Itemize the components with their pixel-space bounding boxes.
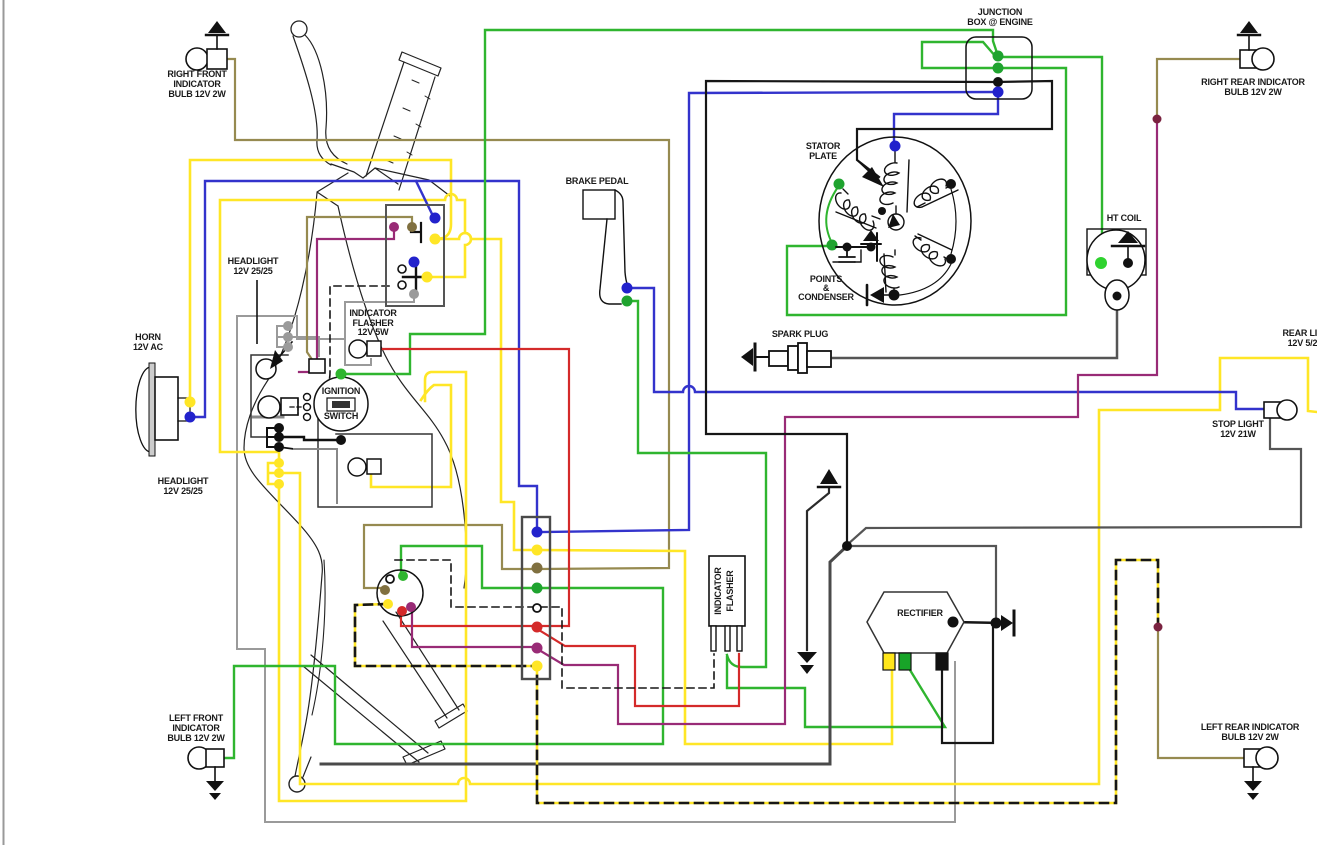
headlight grey bar (253, 416, 283, 419)
wire: yellow switch contact 1 to strip (437, 233, 537, 550)
headlight outer box (251, 355, 288, 437)
wire: yellow bottom pin loop to headlight bulb (279, 372, 466, 801)
wire: grey speedo connector lead (288, 337, 319, 356)
wire: green indicator flasher to rectifier (727, 657, 945, 727)
scooter body outline: fork pedal slab (435, 704, 467, 728)
wire: blue branch to switch contact (416, 181, 433, 216)
bulb stop light (1264, 402, 1281, 418)
maroon junction dot right rear (1153, 115, 1162, 124)
bulb left front indicator (188, 747, 210, 769)
stator top coil (880, 163, 899, 205)
scooter body outline: stub (303, 757, 311, 777)
svg-text:SWITCH: SWITCH (324, 411, 358, 421)
leader line headlight (256, 280, 258, 344)
wire: yellow headlight connector bracket (268, 463, 279, 484)
rectifier output arrow (1001, 615, 1013, 631)
wire: yellow strip to rectifier (537, 550, 892, 744)
indicator flasher unit box (709, 556, 745, 626)
wire: grey from handlebar switch to headlight box (237, 294, 414, 339)
switch contact T bar 2 (403, 261, 431, 293)
svg-text:RIGHT REAR INDICATOR: RIGHT REAR INDICATOR (1201, 77, 1305, 87)
wire: grey inside headlamp box (294, 449, 337, 503)
scooter body outline: handlebar collar (317, 164, 450, 206)
wire: red strip to indicator flasher unit (539, 630, 739, 706)
junction box at engine (966, 37, 1032, 99)
wire: blue brake pedal to stop light (629, 288, 1264, 409)
stator bottom coil (880, 256, 899, 288)
switch terminal yellow 1 (430, 234, 441, 245)
scooter body outline: inner left curve (312, 560, 325, 715)
spark plug (741, 348, 753, 366)
svg-text:12V 5W: 12V 5W (358, 327, 390, 337)
stator bottom internal arc (900, 264, 951, 295)
HT coil (1087, 229, 1146, 275)
ground left rear indicator (1252, 767, 1254, 781)
ground arrow up near rectifier (820, 469, 838, 484)
wire: yellow headlight bulb to pilot bulb (371, 385, 451, 487)
wire: olive right rear indicator pigtail (1157, 59, 1240, 117)
svg-text:HORN: HORN (135, 332, 161, 342)
stator right lower coil (913, 238, 945, 266)
wire: purple round connector to strip (412, 609, 534, 647)
indicator flasher bulb (349, 340, 367, 358)
yellow connector dots (274, 458, 284, 468)
wire: purple strip to right rear indicator (539, 122, 1157, 724)
junction dot at stator feed (842, 541, 852, 551)
round connector (377, 570, 423, 616)
speedo bulb and arrow (256, 359, 276, 379)
svg-text:IGNITION: IGNITION (322, 386, 360, 396)
wire: purple switch to speedo bulb (299, 229, 394, 372)
svg-text:BOX @ ENGINE: BOX @ ENGINE (967, 17, 1033, 27)
stator left coil (836, 193, 874, 230)
brake pedal (583, 190, 615, 219)
scooter body outline: throttle tube end cap (399, 52, 441, 76)
svg-text:12V 5/21W: 12V 5/21W (1288, 338, 1317, 348)
svg-text:FLASHER: FLASHER (725, 570, 735, 612)
headlight earth terminal dots (267, 428, 279, 447)
switch terminal grey (409, 289, 419, 299)
switch terminal yellow 2 (422, 272, 433, 283)
wire: grey ground loop (headlight to rectifier case) (237, 317, 955, 822)
stator frame arrow (862, 167, 884, 187)
stator right internal arc (951, 189, 956, 254)
stator right upper coil (914, 179, 946, 207)
wire: black junction box to stator frame left (706, 81, 996, 546)
wire: green junction box internal link (922, 42, 996, 68)
wire: green brake pedal to indicator flasher (629, 301, 766, 667)
svg-text:HT COIL: HT COIL (1107, 213, 1142, 223)
wire: grey branch to indicator flasher bulb (345, 339, 371, 365)
scooter body outline: throttle tube sides (366, 62, 435, 190)
bulb right front indicator (186, 48, 208, 70)
svg-text:BULB 12V 2W: BULB 12V 2W (167, 733, 225, 743)
wire: olive left rear indicator pigtail (1158, 629, 1244, 758)
svg-text:SPARK PLUG: SPARK PLUG (772, 329, 829, 339)
wire: green ignition switch to junction box (341, 30, 997, 376)
svg-text:12V 25/25: 12V 25/25 (163, 486, 202, 496)
svg-text:INDICATOR: INDICATOR (172, 723, 220, 733)
wire: grey junction to rectifier output node (848, 546, 996, 620)
scooter body outline: fork rod (383, 612, 459, 718)
svg-text:HEADLIGHT: HEADLIGHT (228, 256, 279, 266)
stator plate circle (819, 137, 971, 305)
wire: olive handlebar switch to speedo bulb (307, 217, 412, 358)
wire: blue junction box to strip (541, 92, 997, 532)
scooter body outline: tube hatch ticks (386, 80, 430, 163)
scooter body outline: brake lever ball (291, 21, 307, 37)
ground arrow down near rectifier (797, 652, 817, 663)
wire: grey junction to stop light ground (847, 419, 1301, 545)
wire: yellow horn to switch contact 1 (190, 160, 451, 398)
page border line (3, 0, 5, 845)
switch terminal circles (398, 265, 406, 273)
stator terminal dots (890, 141, 901, 152)
svg-text:RECTIFIER: RECTIFIER (897, 608, 943, 618)
rectifier (867, 592, 964, 653)
headlight bulb terminal circles (304, 394, 311, 401)
wire: olive right front indicator to strip (227, 59, 669, 569)
svg-text:12V 21W: 12V 21W (1220, 429, 1256, 439)
scooter body outline: kickstart pedal slab (403, 741, 445, 765)
pilot bulb (348, 458, 366, 476)
scooter body outline: right body curve (338, 206, 466, 588)
wire: green round connector to left front indicator (222, 546, 663, 758)
svg-text:12V 25/25: 12V 25/25 (233, 266, 272, 276)
wire: black rectifier output (953, 622, 1002, 623)
wire: green stator internal arc (826, 187, 838, 243)
switch contact T bar 1 (411, 223, 421, 242)
svg-text:INDICATOR: INDICATOR (713, 567, 723, 615)
bulb left rear indicator (1244, 749, 1262, 767)
switch terminal blue 2 (409, 257, 420, 268)
wire: green junction box to stator points (787, 68, 1066, 315)
scooter body outline: brake lever blade (293, 35, 347, 165)
svg-text:STOP LIGHT: STOP LIGHT (1212, 419, 1264, 429)
switch terminal olive (407, 222, 417, 232)
bulb right rear indicator (1240, 50, 1258, 68)
wire: yellow headlight connector to switch contact 2 (220, 194, 471, 462)
svg-text:JUNCTION: JUNCTION (978, 7, 1022, 17)
svg-text:INDICATOR: INDICATOR (173, 79, 221, 89)
svg-text:12V AC: 12V AC (133, 342, 164, 352)
maroon junction dot left rear (1154, 623, 1163, 632)
svg-text:RIGHT FRONT: RIGHT FRONT (167, 69, 227, 79)
horn (136, 367, 151, 452)
svg-text:BULB 12V 2W: BULB 12V 2W (1224, 87, 1282, 97)
ignition key slot (327, 398, 355, 411)
svg-text:LEFT FRONT: LEFT FRONT (169, 713, 224, 723)
headlamp unit box (318, 419, 432, 507)
speedo grey connector dots (277, 326, 288, 347)
wire: yellow middle pin to rear light (279, 358, 1317, 784)
wire: dark grey junction to frame bottom run (321, 546, 847, 764)
switch terminal purple (389, 222, 399, 232)
svg-text:BULB 12V 2W: BULB 12V 2W (1221, 732, 1279, 742)
wire: dashed black headset boundary (319, 286, 389, 414)
svg-text:CONDENSER: CONDENSER (798, 292, 854, 302)
wire: black diagonal to grey (279, 447, 294, 449)
wire: dashed black connector boundary to flasher (395, 560, 714, 688)
svg-text:STATOR: STATOR (806, 141, 841, 151)
svg-text:BRAKE PEDAL: BRAKE PEDAL (566, 176, 630, 186)
wire: green junction box to HT coil (1000, 57, 1102, 258)
headlight main bulb (258, 396, 280, 418)
svg-text:REAR LIGHT: REAR LIGHT (1283, 328, 1317, 338)
svg-text:HEADLIGHT: HEADLIGHT (158, 476, 209, 486)
svg-text:BULB 12V 2W: BULB 12V 2W (168, 89, 226, 99)
stator bottom ground arrow (870, 287, 884, 303)
wire: black rectifier negative loop (942, 628, 993, 743)
scooter body outline: end circle (289, 776, 305, 792)
wire: black junction box loop to stator arrow (857, 81, 1052, 177)
wire: grey spark plug HT lead (833, 298, 1117, 358)
ground left front indicator (214, 767, 216, 781)
wire: blue horn to switch and strip (190, 181, 537, 528)
points and condenser (827, 240, 838, 251)
svg-text:PLATE: PLATE (809, 151, 837, 161)
strip connector (522, 517, 550, 679)
wire: blue junction box to stator (894, 94, 998, 146)
scooter body outline: kickstart rod (303, 655, 428, 762)
ground right front indicator (216, 36, 218, 49)
wire: red indicator flasher bulb to connectors (381, 349, 569, 626)
wire: olive round connector to strip (364, 525, 534, 588)
svg-text:INDICATOR: INDICATOR (349, 308, 397, 318)
scooter body outline: left body curve (244, 193, 322, 776)
wire: black ground bus arrow to arrow (807, 488, 829, 650)
wire: dashed yellow-black base (355, 560, 1158, 803)
wire: dashed yellow-black overlay (355, 560, 1158, 803)
svg-text:LEFT REAR INDICATOR: LEFT REAR INDICATOR (1201, 722, 1300, 732)
wire: black headlight earth to ignition switch (279, 437, 341, 440)
stator center boss (888, 214, 904, 230)
horn terminal link (189, 403, 191, 416)
ignition key switch (314, 377, 368, 431)
ground right rear indicator (1248, 36, 1250, 50)
handlebar switch box (386, 205, 444, 306)
switch terminal blue 1 (430, 213, 441, 224)
